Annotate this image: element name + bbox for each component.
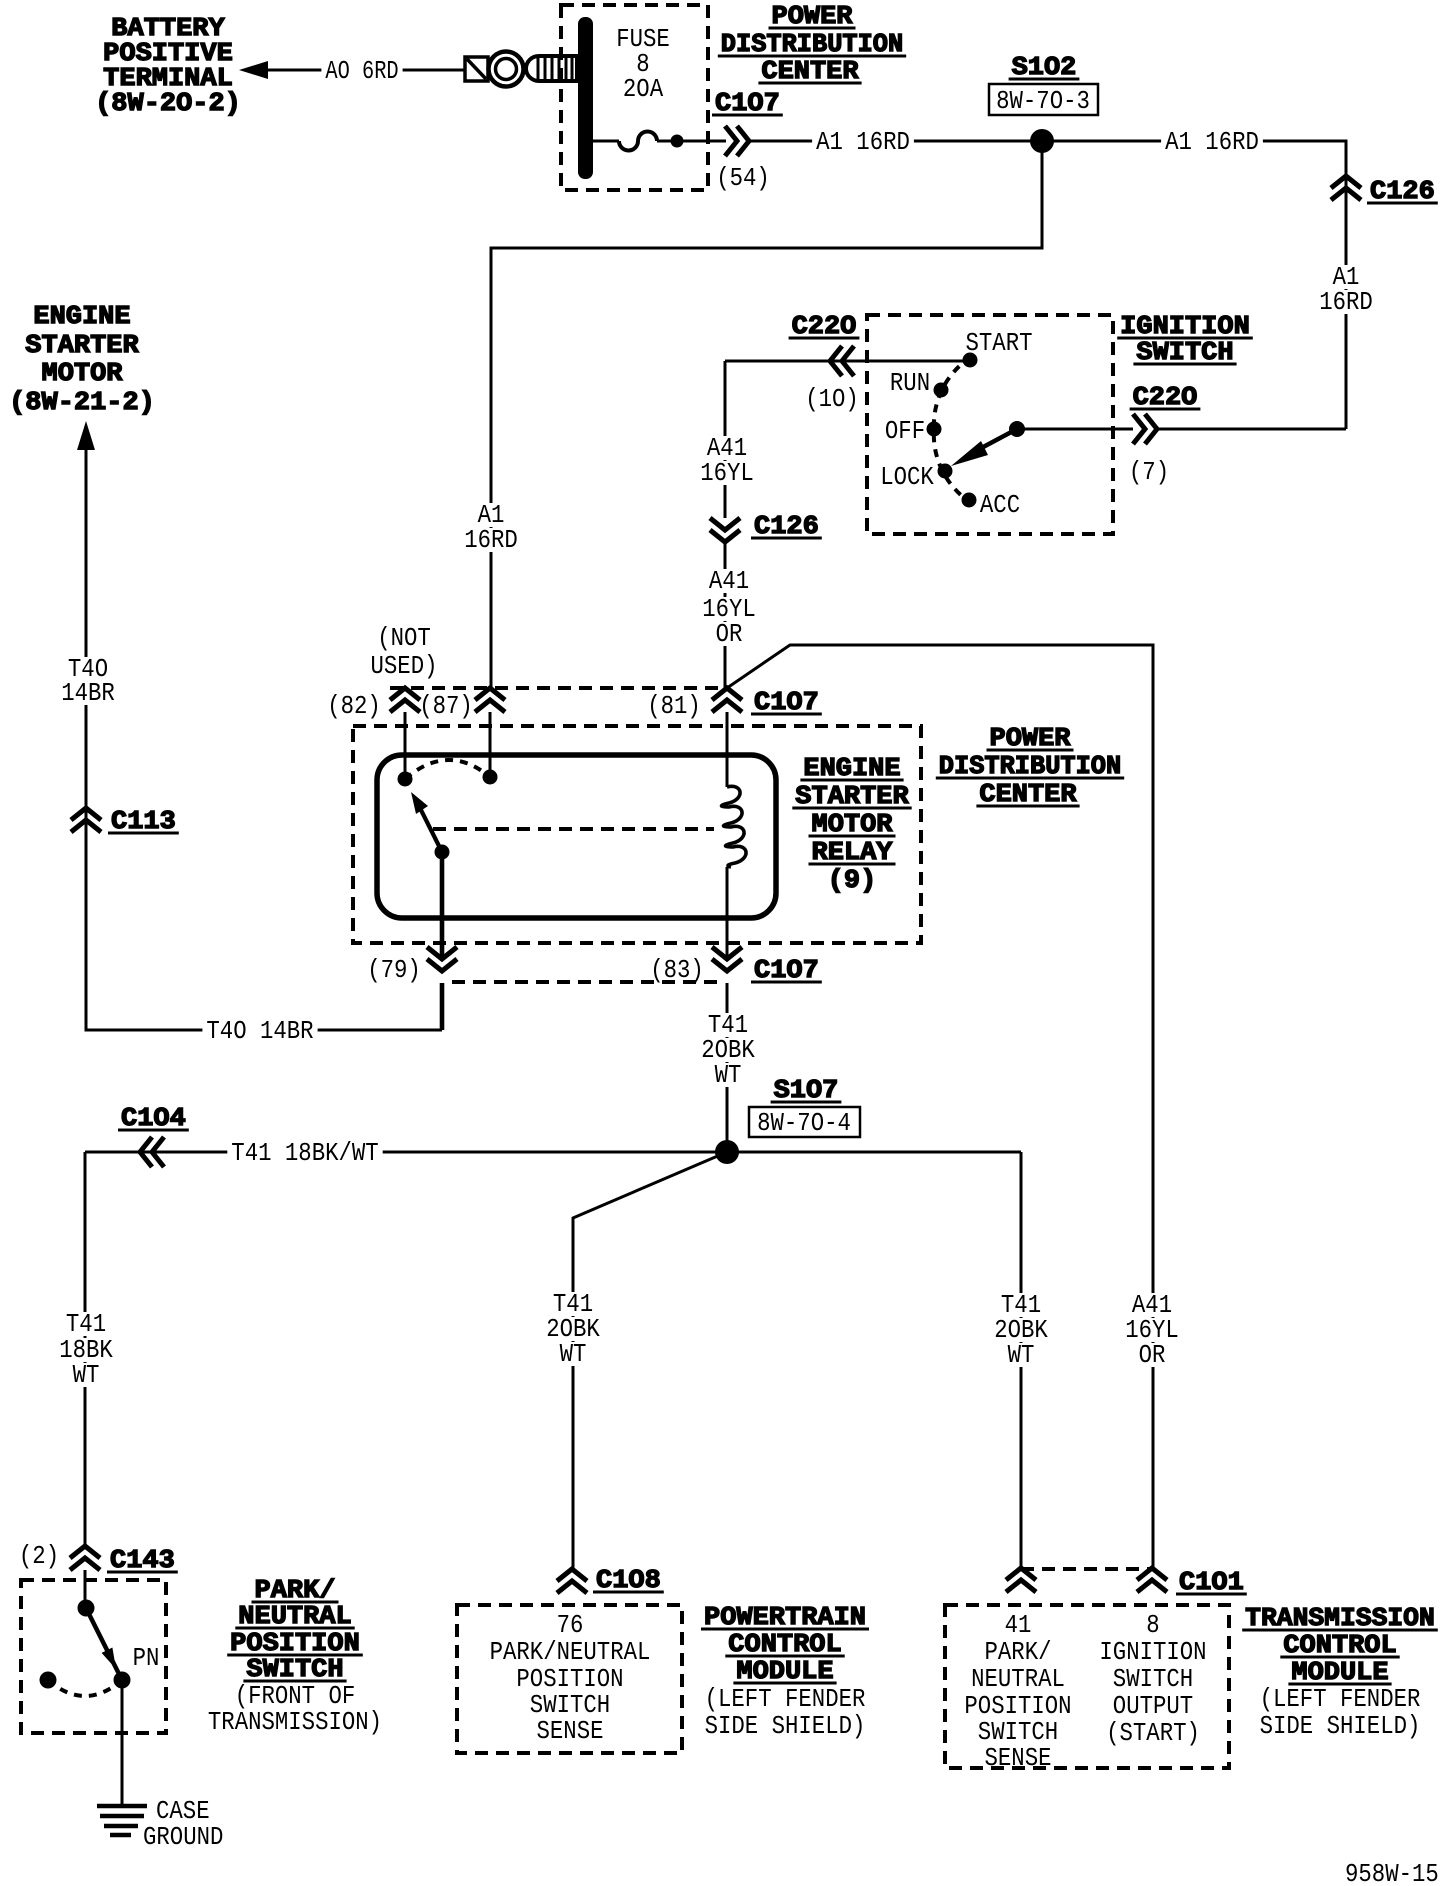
svg-text:WT: WT [1008, 1340, 1035, 1370]
svg-text:(8W-21-2): (8W-21-2) [9, 387, 155, 417]
svg-text:AO 6RD: AO 6RD [325, 56, 398, 86]
svg-text:ENGINE: ENGINE [33, 301, 130, 331]
connector C107 dashed boundary (bottom) [452, 980, 720, 984]
svg-text:16YL: 16YL [700, 458, 754, 488]
svg-text:14BR: 14BR [61, 678, 115, 708]
connector C113 [71, 806, 179, 836]
engine starter motor relay outline [377, 755, 776, 918]
wire A41 16YL OR into relay pin 81 [698, 542, 760, 688]
node ENGINE STARTER MOTOR RELAY label [792, 753, 911, 895]
svg-text:SIDE SHIELD): SIDE SHIELD) [705, 1711, 866, 1741]
svg-text:ACC: ACC [980, 490, 1020, 520]
svg-text:A1 16RD: A1 16RD [1165, 127, 1259, 157]
connector C126 (A1 16RD) [1315, 176, 1438, 317]
wire T41 20BK WT relay pin 83 to splice S107 [697, 983, 759, 1152]
svg-text:PARK/NEUTRAL: PARK/NEUTRAL [490, 1637, 651, 1667]
svg-text:8W-7O-3: 8W-7O-3 [996, 86, 1090, 116]
svg-text:MOTOR: MOTOR [42, 358, 123, 388]
wire T40 14BR to engine starter motor [57, 421, 442, 1046]
svg-text:(LEFT FENDER: (LEFT FENDER [1260, 1684, 1421, 1714]
svg-text:OR: OR [716, 619, 743, 649]
wire T41 20BK WT from S107 to TCM [990, 1152, 1052, 1568]
node POWER DISTRIBUTION CENTER label (relay) [936, 723, 1124, 809]
relay pin 82 terminal [398, 712, 413, 787]
svg-text:(79): (79) [367, 955, 421, 985]
svg-text:A41: A41 [709, 566, 749, 596]
svg-text:SWITCH: SWITCH [1113, 1664, 1193, 1694]
PDC bus bar [578, 17, 593, 179]
wire A1 16RD from S102 to relay pin 87 [460, 141, 1042, 688]
svg-text:A1 16RD: A1 16RD [816, 127, 910, 157]
svg-text:STARTER: STARTER [25, 330, 139, 360]
node CASE GROUND label [143, 1796, 223, 1852]
power distribution center relay box (dashed) [353, 726, 921, 943]
wire T41 20BK WT from S107 to PCM [542, 1152, 727, 1569]
connector C107 pin (79) [367, 947, 457, 1030]
connector C104 [118, 1103, 189, 1167]
park/neutral position switch (dashed box) [21, 1580, 166, 1733]
connector C126 (A41 16YL) [710, 511, 822, 542]
svg-text:OUTPUT: OUTPUT [1113, 1691, 1193, 1721]
splice S102 [989, 52, 1098, 153]
svg-text:SENSE: SENSE [985, 1743, 1052, 1773]
svg-text:LOCK: LOCK [880, 462, 934, 492]
svg-text:GROUND: GROUND [143, 1822, 223, 1852]
relay actuation dashed link [433, 827, 714, 831]
ignition switch wiper arm [951, 421, 1025, 466]
node TRANSMISSION CONTROL MODULE label [1242, 1603, 1438, 1741]
svg-text:OFF: OFF [885, 416, 925, 446]
connector C107 label (fuse output) [712, 88, 783, 118]
TCM pin 41 label [964, 1610, 1071, 1773]
wire A1 16RD from C107 to S102 to C126 [749, 127, 1346, 429]
svg-text:WT: WT [715, 1060, 742, 1090]
wire A0 6RD battery to fuse [266, 56, 465, 86]
svg-text:8: 8 [1146, 1610, 1159, 1640]
wire relay common to pin 79 [440, 852, 445, 956]
fuse F8 value label [616, 24, 670, 104]
svg-text:958W-15: 958W-15 [1345, 1859, 1439, 1886]
connector C107 pin (82) [327, 688, 420, 721]
svg-text:OR: OR [1139, 1340, 1166, 1370]
connector C143 pin (2) [19, 1541, 178, 1602]
svg-text:(1O): (1O) [805, 384, 859, 414]
svg-text:(9): (9) [828, 865, 877, 895]
svg-text:T41 18BK/WT: T41 18BK/WT [231, 1138, 378, 1168]
wire PN switch to case ground [121, 1680, 124, 1806]
ignition switch (dashed box) [867, 315, 1113, 534]
svg-text:USED): USED) [371, 651, 438, 681]
connector C220 pin (10) [789, 311, 860, 414]
battery feed arrow [239, 61, 268, 79]
svg-text:PN: PN [133, 1643, 160, 1673]
svg-text:(82): (82) [327, 691, 381, 721]
node POWERTRAIN CONTROL MODULE label [701, 1602, 869, 1741]
connector C101 pin 41 symbol [1006, 1568, 1036, 1592]
svg-text:16RD: 16RD [464, 525, 518, 555]
svg-text:PARK/: PARK/ [985, 1637, 1052, 1667]
wire A41 16YL OR from relay pin 81 to TCM [727, 645, 1183, 1568]
connector C107 dashed boundary (top) [390, 686, 723, 690]
svg-text:START: START [966, 328, 1033, 358]
svg-text:76: 76 [557, 1610, 584, 1640]
ring terminal connector at PDC [465, 52, 577, 87]
svg-text:T4O 14BR: T4O 14BR [206, 1016, 313, 1046]
connector C108 [557, 1565, 664, 1595]
svg-text:(83): (83) [650, 955, 704, 985]
label (NOT USED) relay pin 82 [371, 623, 438, 681]
splice S107 [715, 1075, 860, 1164]
node BATTERY POSITIVE TERMINAL label [95, 13, 241, 118]
svg-text:(NOT: (NOT [377, 623, 431, 653]
ignition switch rotor contacts [880, 328, 1032, 520]
svg-text:16RD: 16RD [1319, 287, 1373, 317]
svg-text:(START): (START) [1106, 1718, 1200, 1748]
svg-text:2OA: 2OA [623, 74, 664, 104]
connector C107 pin (54) symbol [716, 126, 770, 193]
fuse F8 20A element [592, 132, 726, 151]
power distribution center fuse box (dashed) [561, 5, 708, 190]
svg-text:WT: WT [73, 1360, 100, 1390]
sheet number 958W-15 [1345, 1859, 1439, 1886]
connector C107 pin (83) [650, 947, 822, 985]
svg-text:IGNITION: IGNITION [1099, 1637, 1206, 1667]
connector C107 pin (87) [419, 688, 505, 721]
powertrain control module (dashed box) [457, 1605, 682, 1753]
node IGNITION SWITCH label [1117, 311, 1253, 367]
svg-text:(LEFT FENDER: (LEFT FENDER [705, 1684, 866, 1714]
svg-text:(2): (2) [19, 1541, 59, 1571]
node ENGINE STARTER MOTOR label [9, 301, 155, 417]
svg-text:TRANSMISSION): TRANSMISSION) [208, 1707, 382, 1737]
svg-text:SENSE: SENSE [537, 1716, 604, 1746]
wire T41 18BK WT to park/neutral switch [55, 1152, 117, 1546]
connector C220 pin (7) [1017, 382, 1346, 487]
svg-text:(81): (81) [647, 691, 701, 721]
relay armature contact arm [411, 792, 450, 860]
transmission control module (dashed box) [945, 1605, 1229, 1768]
svg-text:41: 41 [1005, 1610, 1032, 1640]
svg-text:8W-7O-4: 8W-7O-4 [757, 1108, 851, 1138]
TCM pin 8 label [1099, 1610, 1206, 1748]
node POWER DISTRIBUTION CENTER label (top) [718, 1, 906, 86]
park/neutral switch contacts [40, 1600, 160, 1697]
ground (case ground) [97, 1806, 147, 1835]
PCM pin 76 label [490, 1610, 651, 1746]
svg-text:(87): (87) [419, 691, 473, 721]
node PARK/NEUTRAL POSITION SWITCH label [208, 1575, 382, 1737]
wire A41 16YL from ignition START to C126 [696, 361, 970, 518]
connector C101 pin 8 symbol [1137, 1567, 1247, 1597]
svg-text:WT: WT [560, 1339, 587, 1369]
svg-text:(8W-2O-2): (8W-2O-2) [95, 88, 241, 118]
connector C107 pin (81) [647, 687, 822, 721]
svg-text:(7): (7) [1129, 457, 1169, 487]
relay coil [722, 712, 747, 956]
svg-text:RUN: RUN [890, 368, 930, 398]
svg-text:NEUTRAL: NEUTRAL [971, 1664, 1065, 1694]
wire T41 18BK/WT from S107 to C104 and right branch [85, 1138, 1021, 1168]
svg-text:(54): (54) [716, 163, 770, 193]
relay pin 87 terminal [483, 712, 498, 785]
relay contact dashed arc [405, 760, 490, 779]
svg-text:SIDE SHIELD): SIDE SHIELD) [1260, 1711, 1421, 1741]
connector C101 dashed boundary [1021, 1567, 1152, 1571]
